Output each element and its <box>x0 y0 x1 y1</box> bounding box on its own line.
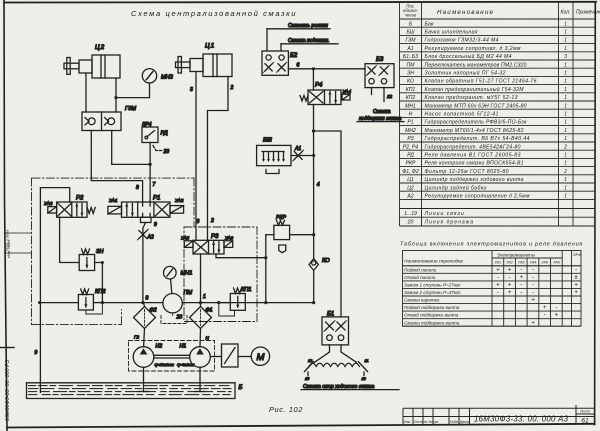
relief valve КП1 <box>219 287 252 316</box>
wire Р2 top to drain 9 <box>40 188 69 393</box>
directional valve Р4 <box>300 83 351 105</box>
tank liquid hatching <box>29 386 232 395</box>
wire 2 <box>208 77 229 241</box>
throttle block Б1 <box>322 312 349 345</box>
relief valve КП2 <box>38 289 106 314</box>
directional valve Р2 <box>44 196 95 218</box>
main pressure line <box>102 302 163 304</box>
pump shafts <box>154 354 190 356</box>
orifice А2, wire to main line <box>143 223 146 303</box>
wire Ц2 left port to ГЗМ <box>85 73 87 112</box>
wire Р3 to Ф1 <box>200 254 202 306</box>
directional valve Р3 <box>181 234 234 254</box>
wires Б1 to screw bearings <box>315 345 330 362</box>
machine boundary (dash-dot) <box>32 178 258 325</box>
wire 8 ГЗМ to Р1 <box>91 131 142 203</box>
title block <box>403 405 595 425</box>
wire line 4 (Р4 down to main line, through КО) <box>313 105 315 259</box>
wire branch to Б1 <box>314 131 342 317</box>
pressure gauge МН2 <box>116 69 174 98</box>
throttle block Б3 <box>365 57 394 88</box>
parts list table <box>400 2 596 226</box>
tank Б <box>27 383 243 399</box>
spindle lube distributor БШ <box>257 138 291 174</box>
wire 7 ГЗМ to Р1 <box>112 131 150 165</box>
drain collector 20 (dashed) <box>161 316 187 324</box>
check valve КО <box>309 258 330 271</box>
pump unit dashed enclosure <box>129 341 215 372</box>
pressure gauge МН1 <box>164 266 193 293</box>
pump Н2 <box>133 335 162 368</box>
node МН2 tap <box>114 96 117 99</box>
filter Ф1 <box>190 307 213 347</box>
lube control relay РКР <box>266 215 316 302</box>
cylinder Ц2 <box>64 44 120 78</box>
left margin trim mark <box>1 347 15 349</box>
pilot-operated check block ГЗМ <box>82 106 136 131</box>
node <box>264 256 267 259</box>
pump Н1 <box>180 336 211 368</box>
node branch to Б1 <box>312 129 315 132</box>
electric motor М <box>251 347 269 365</box>
left margin inventory stamp (rotated text) <box>5 359 11 421</box>
cylinder Ц1 <box>176 43 233 77</box>
wire 3 <box>195 72 197 241</box>
wire Б3 outputs <box>371 88 373 95</box>
wire to carriage lube point <box>266 29 268 51</box>
sheet frame <box>4 0 7 431</box>
pressure switch РД (SР4) <box>142 122 169 164</box>
wire to bearing lube point <box>280 44 282 51</box>
wire Р2 bottom to ЗН <box>60 217 80 262</box>
wire 6: Б2 to Б3 <box>288 68 365 70</box>
directional valve Р1 <box>108 196 184 229</box>
lead screw (wavy symbol) <box>309 363 359 366</box>
throttle block Б2 <box>262 51 298 75</box>
left margin stamp partitions <box>4 232 31 234</box>
wire Ц2 right port to ГЗМ <box>115 78 117 112</box>
gauge selector ПМ <box>163 290 193 321</box>
wire Р4 top port <box>312 69 314 90</box>
orifice А1 <box>291 155 314 157</box>
sequence valve ЗН <box>79 249 104 303</box>
wire Р3 to РКР riser <box>216 254 266 258</box>
coupling <box>222 344 239 367</box>
suction lines with strainers <box>143 367 145 391</box>
filter Ф2 <box>134 303 157 347</box>
